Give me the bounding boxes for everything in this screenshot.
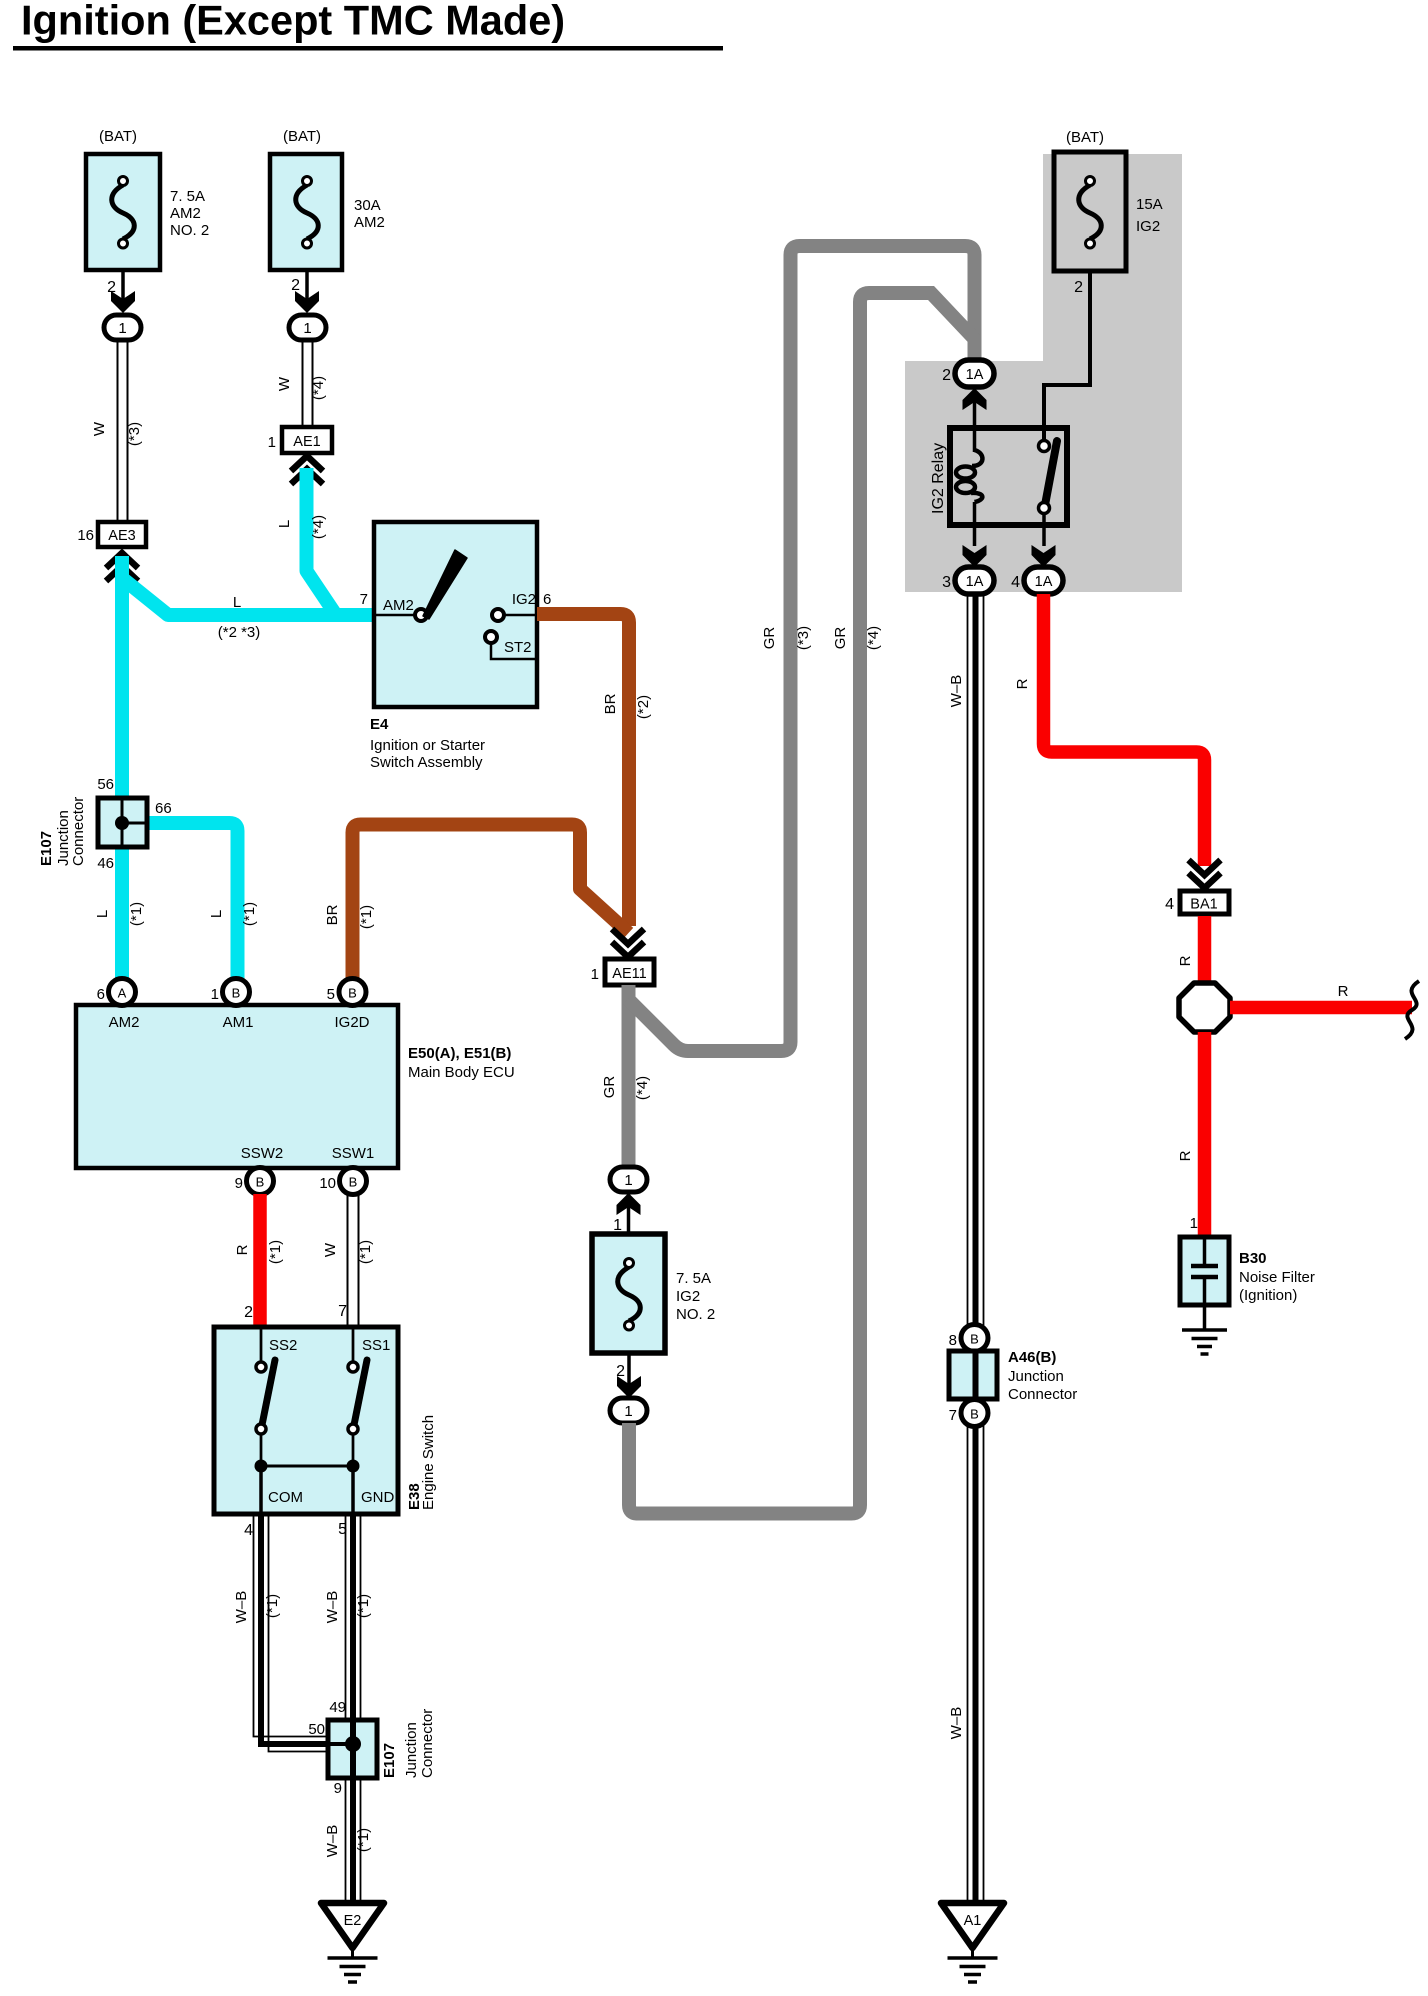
svg-text:7: 7 [338, 1303, 347, 1320]
svg-text:L: L [233, 594, 241, 611]
svg-text:IG2 Relay: IG2 Relay [930, 443, 947, 514]
wire L (*2 *3) branch to E4 AM2 [122, 578, 374, 641]
svg-text:30A: 30A [354, 197, 381, 214]
svg-text:B: B [349, 1175, 358, 1190]
svg-text:1: 1 [1190, 1215, 1198, 1232]
svg-text:E2: E2 [344, 1913, 362, 1929]
svg-text:W: W [322, 1242, 339, 1257]
title Ignition (Except TMC Made) [13, 0, 723, 51]
svg-text:Connector: Connector [419, 1709, 436, 1778]
svg-text:Connector: Connector [1008, 1386, 1077, 1403]
svg-text:(BAT): (BAT) [99, 128, 137, 145]
svg-text:W–B: W–B [324, 1825, 341, 1858]
wire W-B (*1) E38 GND pin5 down [324, 1514, 372, 1902]
svg-text:W–B: W–B [948, 1707, 965, 1740]
svg-text:1: 1 [118, 320, 126, 337]
wire fuse 15A pin2 to relay switch [1044, 271, 1090, 446]
svg-text:GR: GR [761, 627, 778, 650]
svg-text:L: L [276, 520, 293, 528]
svg-text:SS1: SS1 [362, 1337, 390, 1354]
wire GR (*4) AE11 down to fuse connector [601, 985, 651, 1167]
svg-text:NO. 2: NO. 2 [676, 1306, 715, 1323]
svg-text:1A: 1A [966, 367, 984, 383]
svg-text:9: 9 [235, 1175, 243, 1192]
pin 6 A (ECU AM2) [97, 979, 136, 1006]
svg-text:7: 7 [360, 591, 368, 608]
wire GR (*4) loop to relay pin 2 [629, 293, 975, 1514]
wire L cyan E107 branch to ECU AM1 [147, 823, 258, 986]
svg-text:E107: E107 [38, 831, 55, 866]
svg-text:IG2: IG2 [512, 591, 536, 608]
svg-text:L: L [94, 910, 111, 918]
svg-text:(*4): (*4) [310, 376, 327, 400]
engine switch E38 [214, 1327, 437, 1514]
pin 5 B (ECU IG2D) [327, 979, 366, 1006]
wire W-B relay pin3 to A46 to A1 [948, 594, 984, 1902]
svg-text:(*1): (*1) [357, 1240, 374, 1264]
svg-text:BR: BR [602, 693, 619, 714]
ground A1 [941, 1903, 1004, 1982]
wire R (*1) ECU SSW2 to E38 SS2 [234, 1194, 284, 1327]
svg-text:E107: E107 [381, 1743, 398, 1778]
svg-text:AE11: AE11 [612, 966, 646, 982]
svg-text:ST2: ST2 [504, 639, 532, 656]
pin 1 B (ECU AM1) [211, 979, 250, 1006]
connector oval 1 (above IG2 NO.2 fuse) [610, 1167, 647, 1234]
svg-text:R: R [1014, 678, 1031, 689]
wire BR (*1) branch to ECU IG2D [324, 825, 629, 987]
svg-text:B: B [970, 1407, 979, 1422]
connector oval 1 (below IG2 NO.2 fuse) [610, 1398, 647, 1423]
fuse 7.5A IG2 NO.2 [592, 1234, 715, 1353]
svg-text:NO. 2: NO. 2 [170, 222, 209, 239]
svg-text:1: 1 [211, 986, 219, 1003]
svg-text:AM2: AM2 [170, 205, 201, 222]
wire L (*4) AE1 down to junction [276, 468, 336, 615]
relay pin 4 1A [1011, 545, 1063, 594]
fuse 7.5A AM2 NO.2 [86, 128, 209, 270]
svg-text:66: 66 [155, 800, 172, 817]
node octagon junction [1179, 983, 1230, 1032]
svg-text:A46(B): A46(B) [1008, 1349, 1056, 1366]
svg-text:2: 2 [1074, 279, 1083, 296]
svg-text:(*1): (*1) [355, 1828, 372, 1852]
wire W (*3) fuse1 to AE3 [91, 340, 143, 522]
fuse 30A AM2 [270, 128, 385, 270]
svg-text:AM2: AM2 [109, 1014, 140, 1031]
svg-text:E4: E4 [370, 716, 389, 733]
svg-text:4: 4 [1165, 896, 1174, 913]
junction connector E107 (top) [38, 776, 172, 872]
svg-text:A: A [118, 986, 127, 1001]
svg-text:3: 3 [942, 574, 951, 591]
wire R octagon to right break [1230, 981, 1419, 1039]
junction connector A46(B) [949, 1325, 1078, 1427]
E38 COM GND internal bus [255, 1460, 360, 1515]
svg-text:AM2: AM2 [354, 214, 385, 231]
svg-text:AM1: AM1 [223, 1014, 254, 1031]
ground (B30) [1182, 1330, 1227, 1354]
svg-text:R: R [1177, 1150, 1194, 1161]
svg-text:1: 1 [624, 1172, 632, 1189]
svg-text:L: L [208, 910, 225, 918]
wire fuse IG2 NO.2 pin2 to connector [616, 1353, 641, 1398]
svg-text:A1: A1 [964, 1913, 982, 1929]
svg-text:(*4): (*4) [865, 626, 882, 650]
svg-text:(*1): (*1) [358, 905, 375, 929]
svg-text:BA1: BA1 [1190, 897, 1217, 913]
svg-text:Ignition (Except TMC Made): Ignition (Except TMC Made) [21, 0, 565, 44]
wire R octagon to B30 [1177, 1032, 1205, 1237]
main body ECU E50(A) E51(B) [76, 1005, 515, 1168]
svg-text:B30: B30 [1239, 1250, 1267, 1267]
svg-text:1: 1 [624, 1403, 632, 1420]
svg-text:56: 56 [97, 776, 114, 793]
svg-text:(*1): (*1) [355, 1594, 372, 1618]
svg-text:8: 8 [949, 1332, 957, 1349]
svg-text:2: 2 [942, 367, 951, 384]
svg-text:1: 1 [268, 434, 276, 451]
svg-text:R: R [1177, 955, 1194, 966]
svg-text:(*1): (*1) [128, 902, 145, 926]
svg-text:5: 5 [327, 986, 335, 1003]
svg-text:(*3): (*3) [126, 422, 143, 446]
connector AE3 [77, 522, 146, 581]
svg-text:4: 4 [1011, 574, 1020, 591]
E38 SS1 contact and blade [348, 1327, 367, 1466]
pin 9 B (ECU SSW2) [235, 1168, 274, 1195]
svg-text:1: 1 [591, 966, 599, 983]
svg-text:Junction: Junction [403, 1722, 420, 1778]
svg-text:R: R [234, 1244, 251, 1255]
svg-text:6: 6 [97, 986, 105, 1003]
connector BA1 with arrow [1165, 860, 1229, 914]
svg-text:R: R [1338, 983, 1349, 1000]
svg-text:Noise Filter: Noise Filter [1239, 1269, 1315, 1286]
svg-text:Main Body ECU: Main Body ECU [408, 1064, 515, 1081]
wire R BA1 to octagon node [1177, 916, 1205, 985]
svg-text:AM2: AM2 [383, 597, 414, 614]
wire BR (*2) E4 IG2 to AE11 [537, 614, 652, 926]
wire fuse2 pin2 to connector [291, 270, 319, 313]
svg-text:1: 1 [303, 320, 311, 337]
svg-text:GR: GR [601, 1076, 618, 1099]
svg-text:(*4): (*4) [310, 515, 327, 539]
svg-text:B: B [256, 1175, 265, 1190]
svg-text:B: B [348, 986, 357, 1001]
svg-text:AE3: AE3 [108, 528, 135, 544]
svg-text:B: B [970, 1332, 979, 1347]
pin 10 B (ECU SSW1) [319, 1168, 366, 1195]
svg-text:GND: GND [361, 1489, 395, 1506]
svg-text:7: 7 [949, 1407, 957, 1424]
svg-text:Engine Switch: Engine Switch [420, 1415, 437, 1510]
wire R relay pin4 to BA1 [1014, 594, 1205, 866]
svg-text:COM: COM [268, 1489, 303, 1506]
svg-text:10: 10 [319, 1175, 336, 1192]
svg-text:Junction: Junction [1008, 1368, 1064, 1385]
svg-text:2: 2 [244, 1304, 253, 1321]
svg-text:IG2D: IG2D [334, 1014, 369, 1031]
svg-text:AE1: AE1 [293, 434, 320, 450]
svg-text:50: 50 [308, 1721, 325, 1738]
wire W (*1) ECU SSW1 to E38 SS1 [322, 1194, 374, 1327]
relay coil [956, 450, 982, 546]
svg-text:(*2 *3): (*2 *3) [218, 624, 261, 641]
svg-text:Switch Assembly: Switch Assembly [370, 754, 483, 771]
noise filter B30 [1180, 1237, 1315, 1330]
svg-text:IG2: IG2 [676, 1288, 700, 1305]
svg-text:49: 49 [329, 1699, 346, 1716]
svg-text:SS2: SS2 [269, 1337, 297, 1354]
svg-text:BR: BR [324, 904, 341, 925]
junction connector E107 (bottom) [308, 1699, 436, 1797]
connector AE1 [268, 427, 332, 484]
svg-text:Ignition or Starter: Ignition or Starter [370, 737, 485, 754]
svg-text:7. 5A: 7. 5A [170, 188, 205, 205]
svg-text:16: 16 [77, 527, 94, 544]
wire W-B (*1) E107 to E2 [324, 1825, 372, 1858]
wire W-B (*1) E38 COM pin4 to E107 [233, 1514, 353, 1752]
svg-text:1A: 1A [966, 574, 984, 590]
ground E2 [321, 1903, 384, 1982]
svg-text:E50(A), E51(B): E50(A), E51(B) [408, 1045, 511, 1062]
svg-text:(*1): (*1) [241, 902, 258, 926]
svg-text:6: 6 [543, 591, 551, 608]
gray shade region (IG2 relay block) [905, 154, 1182, 592]
svg-text:9: 9 [334, 1780, 342, 1797]
svg-text:SSW1: SSW1 [332, 1145, 375, 1162]
svg-text:(BAT): (BAT) [1066, 129, 1104, 146]
svg-text:W: W [91, 421, 108, 436]
svg-text:W–B: W–B [233, 1591, 250, 1624]
svg-text:B: B [232, 986, 241, 1001]
relay pin 3 1A [942, 545, 994, 594]
svg-text:(*4): (*4) [634, 1076, 651, 1100]
IG2 relay box [930, 428, 1067, 525]
svg-text:(Ignition): (Ignition) [1239, 1287, 1297, 1304]
ignition switch E4 [360, 522, 552, 771]
svg-text:(*1): (*1) [264, 1594, 281, 1618]
svg-text:15A: 15A [1136, 196, 1163, 213]
wire GR (*3) branch loop to relay pin 2 [628, 246, 975, 1051]
svg-text:W–B: W–B [324, 1591, 341, 1624]
svg-text:GR: GR [832, 627, 849, 650]
fuse 15A IG2 [1054, 129, 1163, 271]
svg-text:7. 5A: 7. 5A [676, 1270, 711, 1287]
wire fuse1 pin2 to connector [107, 270, 135, 313]
svg-text:(*3): (*3) [795, 626, 812, 650]
svg-text:46: 46 [97, 855, 114, 872]
svg-text:(BAT): (BAT) [283, 128, 321, 145]
wire W (*4) fuse2 to AE1 [276, 340, 327, 427]
connector oval 1 (fuse1) [104, 315, 141, 340]
svg-text:(*1): (*1) [267, 1240, 284, 1264]
svg-text:4: 4 [244, 1522, 253, 1539]
svg-text:1A: 1A [1035, 574, 1053, 590]
svg-text:W: W [276, 376, 293, 391]
svg-text:(*2): (*2) [635, 695, 652, 719]
E38 SS2 contact and blade [256, 1327, 275, 1466]
connector AE11 with arrow [591, 929, 654, 985]
svg-text:W–B: W–B [948, 675, 965, 708]
relay switch [1039, 441, 1058, 547]
svg-text:Connector: Connector [70, 797, 87, 866]
connector oval 1 (fuse2) [289, 315, 326, 340]
svg-text:IG2: IG2 [1136, 218, 1160, 235]
relay pin 2 1A [942, 360, 994, 452]
svg-text:SSW2: SSW2 [241, 1145, 284, 1162]
wire L cyan AE3 vertical to ECU AM2 [94, 556, 145, 986]
